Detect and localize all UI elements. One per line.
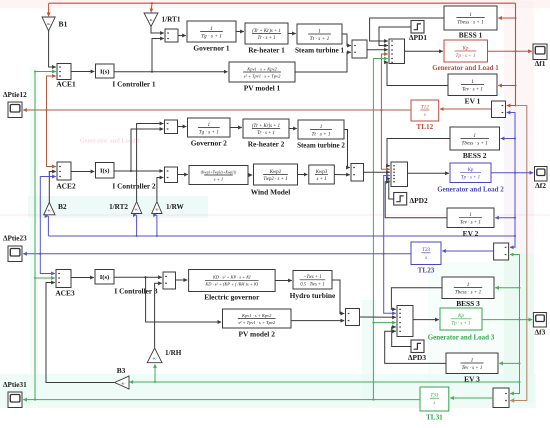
block T12 [411,100,439,121]
summing ACE1 [57,64,71,80]
svg-text:PV model 1: PV model 1 [244,84,281,93]
wire BESS3 feedback loop [391,288,442,310]
label Wind Model [251,188,291,197]
svg-text:I(s): I(s) [100,274,110,281]
label DPtie12 [3,91,27,99]
summing sum3b [346,309,360,326]
block PV model 2 [223,309,292,328]
svg-text:TL23: TL23 [418,267,435,275]
wire DPD1 to sum1 [379,27,411,46]
svg-text:Tp · s + 1: Tp · s + 1 [461,176,480,181]
wire B1 to ACE1 [49,31,56,67]
wire I3 output [114,276,162,278]
block Hydro turbine [293,271,332,290]
wire wind sum to Wind Model [178,174,188,176]
svg-text:Kp: Kp [467,168,474,173]
svg-text:Kwp2: Kwp2 [269,170,282,175]
svg-text:1: 1 [318,28,321,34]
svg-text:(Tr + Kr)s + 1: (Tr + Kr)s + 1 [252,29,281,34]
svg-text:(Tr + Kr)s + 1: (Tr + Kr)s + 1 [252,124,280,129]
wire Df3 to BESS3 [495,287,520,289]
wire sum1b to sum1 main [367,49,388,51]
wire Df1 to BESS1 [498,17,516,19]
svg-text:Tev · s + 1: Tev · s + 1 [460,221,481,226]
block Re-heater 1 [245,23,288,44]
label 1/RW [166,203,185,211]
wire GL1 to Df1 scope [488,50,532,52]
wire Df2 into B2 [47,216,49,236]
svg-text:Re-heater 1: Re-heater 1 [248,46,285,55]
wire 1/RT2 to sum2a [137,124,164,202]
svg-text:-K-: -K- [46,22,51,26]
svg-text:BESS 3: BESS 3 [456,299,480,308]
label 1/RH [165,349,182,357]
summing junction area 1 [389,39,405,64]
label PV model 2 [238,330,275,339]
wire Df1 to EV1 [498,84,516,86]
wire DPtie23 to ACE3 [40,254,55,274]
svg-text:EV 1: EV 1 [465,97,481,106]
wire sumT31 to T31 block [450,397,493,399]
wire Df1 down to T31 tall brown [510,106,527,401]
block BESS 3 [442,277,494,299]
wire Df1 feedback top line [49,2,516,4]
label ACE2 [56,182,76,191]
block Electric governor [189,270,276,292]
svg-text:Steam turbine 1: Steam turbine 1 [295,47,345,55]
wire Df1 into sum T12 [507,104,517,106]
label Steam turbine 2 [297,142,345,150]
wire sum3a to Electric governor [176,279,188,281]
svg-text:ACE2: ACE2 [56,182,76,191]
wire into gain 1/RT1 [151,3,152,12]
svg-text:Δf3: Δf3 [535,328,546,337]
svg-text:Tr · s + 1: Tr · s + 1 [257,36,275,41]
label BESS 3 [456,299,480,308]
svg-text:B2: B2 [58,202,67,211]
summing sum T31 [493,388,509,408]
block Governor 2 [188,118,231,137]
svg-text:EV 2: EV 2 [463,229,479,238]
svg-text:ΔPtie12: ΔPtie12 [3,91,27,99]
label ACE3 [55,289,75,298]
svg-text:TL12: TL12 [416,123,433,131]
label Generator and Load 1 [432,64,499,72]
svg-text:ΔPtie31: ΔPtie31 [3,381,27,389]
wire ACE2 to I Controller 2 [71,171,94,173]
svg-text:ΔPD1: ΔPD1 [409,33,427,42]
wire sumT12 to T12 block [440,108,492,110]
svg-text:Tg · s + 1: Tg · s + 1 [201,34,222,40]
block Re-heater 2 [243,119,289,138]
svg-text:Tp · s + 1: Tp · s + 1 [455,53,475,59]
svg-text:Kpv1 · s + Kpv2: Kpv1 · s + Kpv2 [246,66,277,71]
svg-text:Tbess · s + 1: Tbess · s + 1 [455,290,482,296]
scope Df3 [533,313,546,328]
wire Df2 right vertical [510,113,515,248]
wire T12 to sum2 [381,110,389,169]
wire DPD2 to sum2 [389,179,394,200]
wire DPtie31 to ACE1 [34,70,56,72]
wire 1/RW to wind sum [157,178,163,202]
label Generator and Load 2 [437,186,504,194]
svg-text:−Tws + 1: −Tws + 1 [303,275,321,280]
svg-text:Tr · s + 1: Tr · s + 1 [257,131,275,136]
svg-text:1: 1 [469,12,472,18]
svg-text:1: 1 [473,133,476,139]
svg-text:Generator and Load 1: Generator and Load 1 [432,64,499,72]
wire ACE3 to I Controller 3 [71,277,94,279]
wire EV3 feedback loop [385,331,446,363]
wire ACE1 to I Controller 1 [71,71,94,73]
wire Re-heater 1 to Steam turbine 1 [288,33,296,35]
svg-text:KD · s² + KP · s + KI: KD · s² + KP · s + KI [212,275,251,280]
svg-text:-K-: -K- [154,208,159,212]
wire DPtie12 to ACE1 [45,76,55,111]
svg-text:KD · s² + (KP + f /RH )s + KI: KD · s² + (KP + f /RH )s + KI [204,282,258,287]
wire sumT23 to T23 block [442,250,493,252]
wire Df2 into 1/RW [156,215,158,237]
label DPtie23 [3,235,27,243]
label BESS 1 [459,31,483,40]
wire T31 output line [34,399,420,401]
label I Controller 2 [112,182,156,191]
wire 1/RH to sum3a [155,283,162,347]
source DPD2 [394,193,407,206]
svg-text:PV model 2: PV model 2 [238,330,275,339]
block Wind Model 2 [254,164,298,185]
svg-text:1/RW: 1/RW [166,203,185,211]
wire EV1 feedback loop [387,62,448,85]
label DPtie31 [3,381,27,389]
svg-text:1: 1 [469,213,472,218]
wire DPtie12 down to ACE2 [47,110,56,167]
svg-text:1: 1 [471,358,474,363]
label DPD3 [408,353,426,362]
svg-text:Tbess · s + 1: Tbess · s + 1 [461,141,488,147]
wire I2 output [114,170,163,172]
svg-text:Δf1: Δf1 [535,59,546,68]
source DPD3 [411,340,424,353]
block EV 1 [448,74,497,96]
label Df2 [535,181,546,190]
wire Df3 to EV3 [499,362,520,364]
svg-text:-K-: -K- [47,209,52,213]
svg-text:0.5 · Tws + 1: 0.5 · Tws + 1 [300,282,324,287]
wire T31 to sum3 [373,322,395,324]
svg-text:Governor 2: Governor 2 [191,139,227,148]
svg-text:Re-heater 2: Re-heater 2 [248,140,285,149]
wire Governor 2 to Re-heater 2 [230,127,242,129]
svg-text:-K-: -K- [121,382,126,386]
summing ACE3 [56,270,71,288]
label EV 1 [465,97,481,106]
wire Df1 right vertical [515,3,517,105]
label Df3 [535,328,546,337]
block Governor 1 [187,21,236,42]
block T31 [420,387,449,411]
label ACE1 [56,80,76,89]
svg-text:(Kwp1+Twp1(s+Kwp1)): (Kwp1+Twp1(s+Kwp1)) [201,170,237,174]
svg-text:Tev · s + 1: Tev · s + 1 [462,87,483,92]
wire Df3 into sum T23 [510,254,520,256]
block BESS 1 [444,6,497,30]
svg-text:T31: T31 [430,393,438,399]
block I Controller 3 [95,270,114,285]
label TL12 [416,123,433,131]
svg-text:Tt · s + 1: Tt · s + 1 [310,36,330,42]
label B3 [117,366,126,375]
wire PV model 1 to sum1b [295,52,351,72]
svg-text:ΔPtie23: ΔPtie23 [3,235,27,243]
wire EG to Hydro turbine [275,280,292,282]
label B2 [58,202,67,211]
wire riser to sum2a [131,129,163,171]
wire GL3 to Df3 scope [482,319,532,321]
scope Df2 [535,167,548,182]
label Steam turbine 1 [295,47,345,55]
svg-text:Kpv1 · s + Kpv2: Kpv1 · s + Kpv2 [241,313,272,318]
wire Df2 to EV2 [495,217,516,219]
wire T31 to sum1 long green riser [372,59,387,401]
wire sum2 to Generator and Load 2 [408,172,449,174]
svg-text:s: s [424,112,426,118]
gain B2 [44,203,55,215]
scope DPtie31 [8,392,22,408]
svg-text:-K-: -K- [152,357,157,361]
block Wind Model 3 [309,165,335,184]
wire T23 drop to sum3 [384,254,396,313]
wire Df3 into 1/RH [154,364,156,382]
svg-text:Tp · s + 1: Tp · s + 1 [451,322,470,327]
svg-text:Hydro turbine: Hydro turbine [290,291,336,300]
wire Steam turbine 2 to sum2b [344,130,350,168]
svg-text:-K-: -K- [149,18,154,22]
svg-text:Wind Model: Wind Model [251,188,291,197]
wire Hydro to sum3b [332,280,344,314]
svg-text:1/RH: 1/RH [165,349,182,357]
svg-text:I Controller 2: I Controller 2 [112,182,156,191]
wire sum3 to Generator and Load 3 [413,319,439,321]
block Steam turbine 2 [298,120,344,139]
gain 1/RT1 [144,13,158,27]
label Governor 2 [191,139,227,148]
summing sum2a governor 2 input [165,120,178,134]
gain 1/RT2 [131,202,141,214]
wire BESS2 feedback loop [387,139,450,166]
label DPD1 [409,33,427,42]
summing sum1a governor 1 input [165,29,178,42]
svg-text:s: s [433,400,435,406]
label EV 2 [463,229,479,238]
svg-text:ACE1: ACE1 [56,80,76,89]
svg-text:s² + Tpv1 · s + Tpv2: s² + Tpv1 · s + Tpv2 [238,320,276,325]
wire T23 output line [40,253,411,255]
svg-text:T12: T12 [421,104,429,110]
svg-text:Tt · s + 1: Tt · s + 1 [312,132,331,138]
block EV 3 [446,353,498,374]
svg-text:Generator and Load 2: Generator and Load 2 [437,186,504,194]
summing wind sum [165,167,178,183]
svg-text:1: 1 [471,80,474,85]
wire sum2b to sum2 main [364,171,390,173]
label EV 3 [464,375,480,384]
svg-text:TL31: TL31 [426,414,443,422]
summing sum2b [351,164,364,182]
label Re-heater 1 [248,46,285,55]
block Wind Model 1 [189,166,248,185]
wire DPtie23 to ACE2 [39,177,56,255]
wire Df2 to BESS2 [501,137,516,139]
wire Df2 into sum T12 [507,113,515,131]
wire PV2 to sum3b [291,320,344,322]
summing sum1b [352,40,367,58]
svg-text:s + 1: s + 1 [214,176,223,181]
wire T23 riser to sum2 [383,176,390,255]
svg-text:Tev · s + 1: Tev · s + 1 [462,366,483,371]
label Hydro turbine [290,291,336,300]
label TL31 [426,414,443,422]
svg-text:Tbess · s + 1: Tbess · s + 1 [457,20,484,26]
wire WM3 to sum2b [334,174,350,176]
label I Controller 3 [114,287,158,296]
wire I1 output to PV model 1 [114,71,228,73]
wire BESS1 feedback loop [370,18,444,41]
svg-text:ACE3: ACE3 [55,289,75,298]
svg-text:Kp: Kp [457,314,464,319]
svg-text:Twp2 · s + 1: Twp2 · s + 1 [263,177,287,182]
label PV model 1 [244,84,281,93]
wire Re-heater 2 to Steam turbine 2 [289,128,297,130]
block Generator and Load 1 [444,40,488,62]
label Re-heater 2 [248,140,285,149]
svg-text:ΔPD2: ΔPD2 [410,196,428,205]
wire B3 to ACE3 [46,283,114,383]
block Generator and Load 3 [440,308,482,330]
wire T31 to DPtie31 scope [23,399,35,401]
block T23 [411,242,441,265]
wire sum2a to Governor 2 [178,126,187,128]
wire sum3b to sum3 main [360,316,396,318]
wire 1/RT1 to sum1a [151,27,164,34]
block PV model 1 [229,62,295,82]
svg-text:s² + Tpv1 · s + Tpv2: s² + Tpv1 · s + Tpv2 [244,73,282,78]
gain 1/RH [147,348,162,363]
wire WM1 to WM2 [248,174,252,176]
svg-text:T23: T23 [422,247,430,253]
wire Governor 1 to Re-heater 1 [236,31,244,33]
label I Controller 1 [112,80,156,89]
wire T12 output line [47,109,412,111]
wire DPD3 to sum3 [392,327,411,347]
svg-text:Δf2: Δf2 [535,181,546,190]
block Steam turbine 1 [297,24,342,44]
svg-text:Kp: Kp [461,45,468,51]
wire drop to PV model 2 [146,277,222,322]
svg-text:B3: B3 [117,366,126,375]
wire GL2 to Df2 scope [491,172,533,174]
summing ACE2 [57,162,71,180]
svg-text:BESS 1: BESS 1 [459,31,483,40]
gain 1/RW [152,202,162,214]
wire into gain B1 [48,3,50,16]
svg-text:B1: B1 [59,20,68,29]
wire EV2 feedback loop [385,182,447,218]
label BESS 2 [463,151,487,160]
svg-text:I Controller 1: I Controller 1 [112,80,156,89]
svg-text:s: s [425,255,427,261]
svg-text:I(s): I(s) [100,168,110,175]
svg-text:Steam turbine 2: Steam turbine 2 [297,142,345,150]
svg-text:ΔPD3: ΔPD3 [408,353,426,362]
summing junction area 2 [391,162,408,187]
wire T12 to DPtie12 scope [23,109,46,111]
svg-text:1: 1 [467,282,470,288]
svg-text:1: 1 [320,124,323,130]
gain B3 [115,376,130,389]
block EV 2 [447,208,494,228]
wire Steam turbine 1 to sum1b [342,34,351,46]
wire sum1a to Governor 1 [178,35,186,37]
source DPD1 [411,21,424,34]
scope Df1 [533,44,547,60]
block Generator and Load 2 [450,163,491,183]
svg-text:Generator and Load 3: Generator and Load 3 [428,334,495,342]
svg-text:1: 1 [210,26,213,32]
wire B2 to ACE2 [49,172,56,203]
label DPD2 [410,196,428,205]
summing sum T12 [492,101,506,118]
svg-text:Kwp3: Kwp3 [315,170,328,175]
label 1/RT2 [109,203,128,211]
wire T12 to sum1 [380,54,387,111]
svg-text:I Controller 3: I Controller 3 [114,287,158,296]
label 1/RT1 [162,16,181,24]
label TL23 [418,267,435,275]
label B1 [59,20,68,29]
wire DPtie31 to ACE3 [34,277,55,279]
wire Df3 to B3 line [130,381,521,383]
svg-text:1/RT2: 1/RT2 [109,203,128,211]
label Df1 [535,59,546,68]
wire T23 to DPtie23 scope [23,253,40,255]
svg-text:Tg · s + 1: Tg · s + 1 [199,130,219,136]
block I Controller 1 [96,64,115,78]
wire Df2 into 1/RT2 [136,215,138,237]
summing sum3a [163,272,176,289]
wire riser to sum1a [152,39,164,72]
block BESS 2 [450,127,500,150]
label Generator and Load 3 [428,334,495,342]
wire DPtie31 left vertical [34,72,36,400]
svg-text:-K-: -K- [134,208,139,212]
svg-text:1: 1 [208,122,211,128]
block I Controller 2 [96,163,115,179]
svg-text:Governor 1: Governor 1 [193,44,229,53]
label Electric governor [204,293,260,302]
svg-text:I(s): I(s) [100,68,110,75]
scope DPtie12 [8,102,22,118]
svg-text:BESS 2: BESS 2 [463,151,487,160]
gain B1 [42,17,55,31]
wire sum1 to Generator and Load 1 [405,50,443,52]
wire Df2 feedback line [48,235,516,237]
summing junction area 3 [397,306,413,337]
scope DPtie23 [8,246,22,262]
svg-text:1/RT1: 1/RT1 [162,16,181,24]
svg-text:s + 1: s + 1 [316,177,326,182]
wire Df3 right vertical [510,255,519,394]
